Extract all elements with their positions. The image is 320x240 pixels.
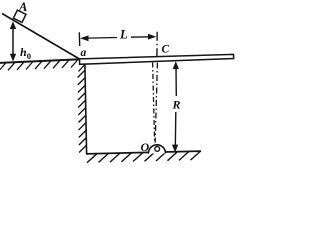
svg-text:L: L (119, 28, 128, 42)
table slab (80, 54, 234, 64)
upper ground line (0, 59, 80, 63)
cliff hatching (78, 70, 87, 153)
svg-text:a: a (81, 47, 87, 59)
lower ground line (86, 151, 201, 154)
cliff wall (85, 64, 87, 153)
dimension L: line with arrows (88, 37, 117, 40)
svg-text:C: C (162, 44, 170, 56)
dimension h0 double arrow (12, 26, 14, 57)
svg-text:O: O (141, 140, 150, 154)
dimension R arrow (175, 66, 177, 96)
dimension L: left tick (78, 32, 80, 46)
dashed line left of V below table (153, 63, 155, 143)
dashed line right of V below table (155, 63, 157, 143)
block A on incline (13, 10, 26, 22)
lower ground hatching (87, 151, 201, 163)
svg-text:h0: h0 (20, 45, 31, 61)
svg-text:A: A (18, 0, 27, 14)
svg-text:R: R (172, 98, 181, 112)
bump at O (semicircle) (148, 145, 165, 154)
incline surface (2, 14, 80, 60)
upper ground hatching (0, 60, 85, 72)
hole in bump (155, 147, 160, 152)
centerline above table (dash-dot) (156, 32, 158, 56)
